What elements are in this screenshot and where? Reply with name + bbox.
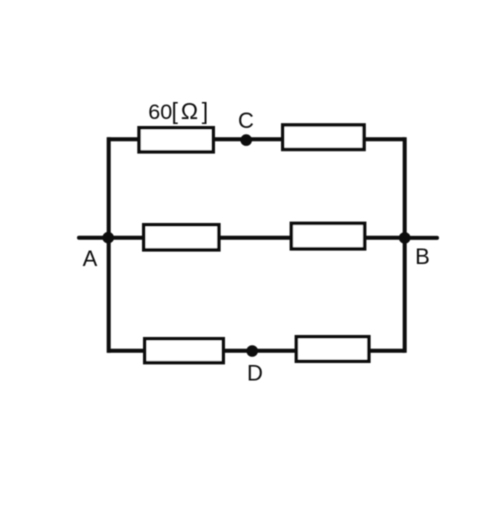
node B junction dot — [399, 232, 411, 244]
wire: left vertical bus from top branch to bottom branch — [107, 137, 111, 352]
wire: left terminal stub at node A — [79, 236, 108, 240]
resistor R5 (bottom-left) — [145, 339, 224, 363]
svg-text:D: D — [247, 361, 263, 386]
node C junction dot — [240, 134, 252, 146]
wire: right vertical bus from top branch to bottom branch — [403, 137, 407, 352]
wire: middle branch horizontal — [108, 236, 405, 240]
resistor R4 (middle-right) — [291, 223, 364, 249]
node A junction dot — [102, 232, 114, 244]
resistor R6 (bottom-right) — [296, 337, 369, 362]
wire: top branch horizontal — [107, 137, 405, 141]
wire: right terminal stub at node B — [405, 236, 437, 240]
svg-text:C: C — [238, 108, 254, 133]
wire: bottom branch horizontal — [107, 349, 405, 353]
node D junction dot — [246, 345, 258, 357]
resistor R3 (middle-left) — [144, 225, 219, 250]
svg-text:A: A — [83, 246, 98, 271]
svg-text:B: B — [415, 244, 430, 269]
resistor R1 (top-left, 60 ohm) — [139, 128, 213, 152]
resistor R2 (top-right) — [283, 125, 364, 150]
